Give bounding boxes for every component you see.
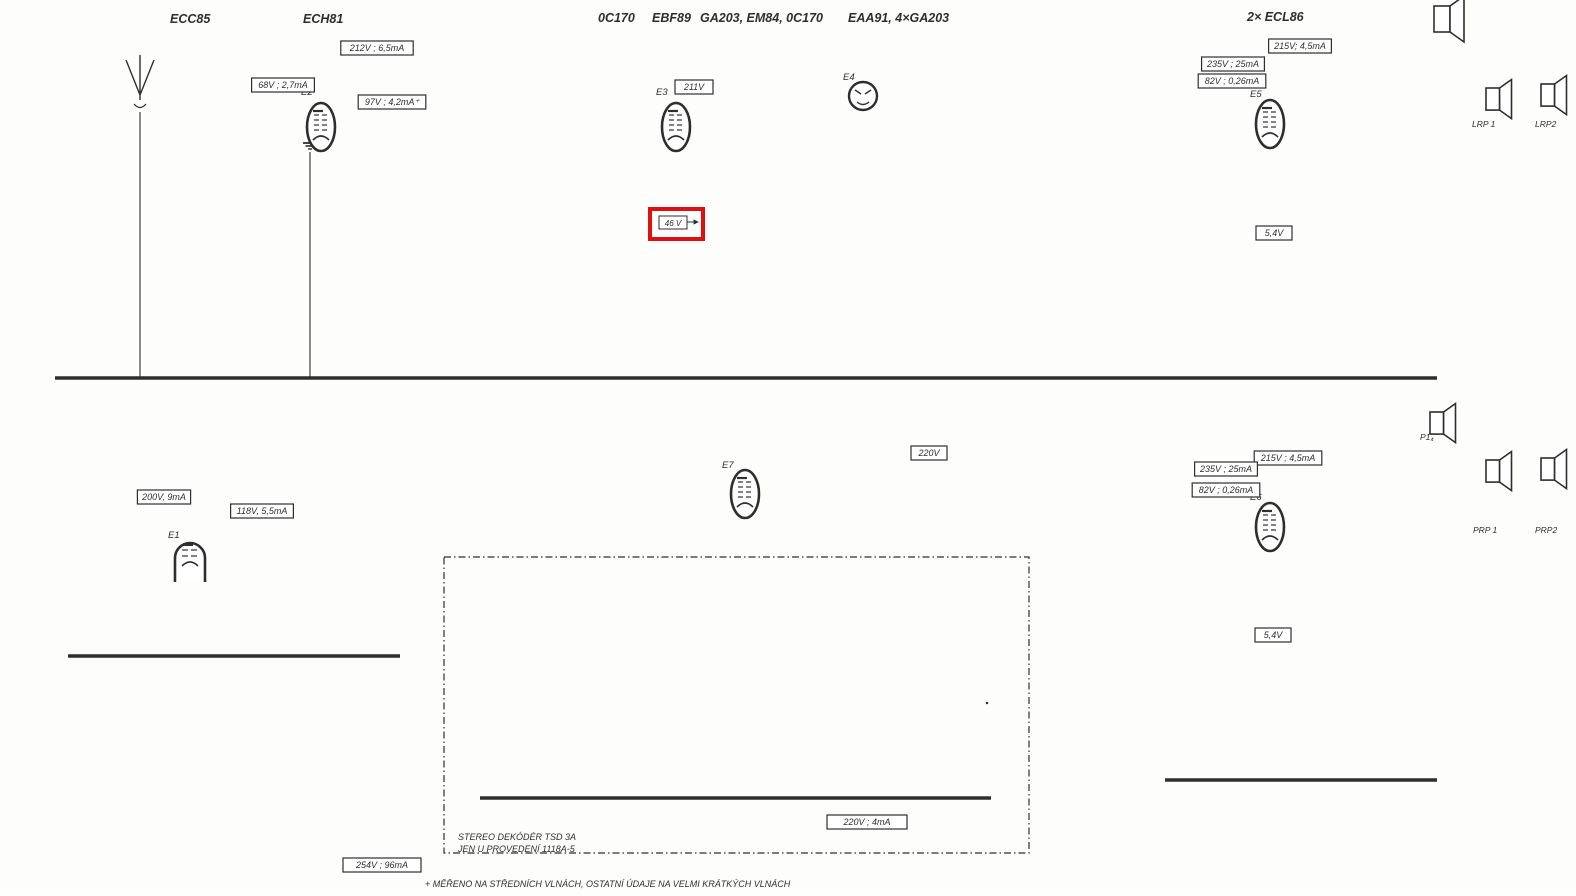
red highlight box 46V <box>650 209 703 239</box>
label stereo dekoder <box>457 832 576 854</box>
svg-text:LRP2: LRP2 <box>1535 119 1557 129</box>
svg-text:118V, 5,5mA: 118V, 5,5mA <box>237 506 288 516</box>
svg-text:E3: E3 <box>656 87 668 98</box>
svg-text:E7: E7 <box>722 460 734 471</box>
vbox 212V;6,5mA <box>341 41 413 55</box>
svg-text:+ MĚŘENO NA STŘEDNÍCH VLNÁCH,: + MĚŘENO NA STŘEDNÍCH VLNÁCH, OSTATNÍ ÚD… <box>425 879 791 889</box>
tube E2 (ECH81) <box>301 87 335 151</box>
svg-text:0C170: 0C170 <box>598 11 635 25</box>
note bottom <box>425 879 791 889</box>
tube E4 (EAA91) <box>843 72 877 110</box>
vbox 5,4V r2 <box>1255 628 1291 642</box>
vbox 235V;25mA r2 <box>1195 462 1258 476</box>
speaker PRP2 <box>1535 450 1567 536</box>
svg-text:E5: E5 <box>1250 89 1262 100</box>
tube E5 (ECL86) <box>1250 89 1284 148</box>
antenna <box>126 55 154 378</box>
svg-text:PRP2: PRP2 <box>1535 525 1557 535</box>
svg-text:ECC85: ECC85 <box>170 12 211 26</box>
label ECH81 <box>303 12 343 26</box>
vbox 97V;4,2mA <box>358 95 426 109</box>
svg-text:5,4V: 5,4V <box>1264 630 1284 640</box>
vbox 220V mid <box>911 446 947 460</box>
speaker LRP1 <box>1472 80 1512 130</box>
svg-text:2× ECL86: 2× ECL86 <box>1246 10 1305 24</box>
label 0C170 <box>598 11 635 25</box>
vbox 215V;4,5mA r1 <box>1269 39 1332 53</box>
svg-text:235V ; 25mA: 235V ; 25mA <box>1206 59 1259 69</box>
svg-text:5,4V: 5,4V <box>1265 228 1285 238</box>
svg-text:82V ; 0,26mA: 82V ; 0,26mA <box>1199 485 1254 495</box>
vbox 220V;4mA <box>827 815 907 829</box>
main HT bus <box>55 376 1437 380</box>
stereo decoder enclosure <box>444 557 1029 853</box>
svg-text:STEREO DEKÓDÉR TSD 3A: STEREO DEKÓDÉR TSD 3A <box>458 832 576 842</box>
svg-text:E1: E1 <box>168 530 180 541</box>
svg-text:215V; 4,5mA: 215V; 4,5mA <box>1273 41 1326 51</box>
svg-text:220V ; 4mA: 220V ; 4mA <box>842 817 890 827</box>
svg-text:82V ; 0,26mA: 82V ; 0,26mA <box>1205 76 1260 86</box>
vbox 200V,9mA <box>137 490 190 504</box>
label EAA91,4xGA203 <box>848 11 949 25</box>
svg-text:GA203, EM84, 0C170: GA203, EM84, 0C170 <box>700 11 823 25</box>
vbox 5,4V r1 <box>1256 226 1292 240</box>
svg-text:215V ; 4,5mA: 215V ; 4,5mA <box>1260 453 1316 463</box>
svg-text:68V ; 2,7mA: 68V ; 2,7mA <box>258 80 308 90</box>
svg-text:220V: 220V <box>917 448 940 458</box>
tube E6 (ECL86) <box>1250 492 1284 551</box>
vbox 118V,5,5mA <box>231 504 294 518</box>
label ECC85 <box>170 12 211 26</box>
svg-text:EBF89: EBF89 <box>652 11 691 25</box>
svg-text:EAA91, 4×GA203: EAA91, 4×GA203 <box>848 11 949 25</box>
svg-text:235V ; 25mA: 235V ; 25mA <box>1199 464 1252 474</box>
svg-text:46 V: 46 V <box>665 219 682 228</box>
tube E3 (EBF89) <box>656 87 690 151</box>
vbox 82V;0,26mA r2 <box>1192 483 1260 497</box>
svg-text:PRP 1: PRP 1 <box>1473 525 1498 535</box>
svg-text:P1₄: P1₄ <box>1420 432 1434 442</box>
svg-text:200V, 9mA: 200V, 9mA <box>141 492 186 502</box>
svg-text:97V ; 4,2mA⁺: 97V ; 4,2mA⁺ <box>365 97 421 107</box>
speaker P14 <box>1420 404 1456 443</box>
decoder ground bus <box>480 796 991 799</box>
vbox 211V <box>675 80 713 94</box>
left AF ground bus <box>68 654 400 657</box>
right channel ground bus <box>1165 778 1437 781</box>
tube E7 (EM84) <box>722 460 759 518</box>
label EBF89 <box>652 11 691 25</box>
speaker LRP2 <box>1535 76 1567 130</box>
vbox 215V;4,5mA r2 <box>1254 451 1322 465</box>
svg-text:212V ; 6,5mA: 212V ; 6,5mA <box>349 43 405 53</box>
svg-text:ECH81: ECH81 <box>303 12 343 26</box>
svg-text:211V: 211V <box>683 82 705 92</box>
svg-text:LRP 1: LRP 1 <box>1472 119 1496 129</box>
speaker top <box>1434 0 1464 42</box>
label 2xECL86 <box>1246 10 1305 24</box>
vbox 82V;0,26mA r1 <box>1198 74 1266 88</box>
ground symbol <box>303 118 317 378</box>
tube E1 (ECC85) <box>168 530 205 582</box>
speaker PRP1 <box>1473 452 1512 536</box>
label GA203,EM84,0C170 <box>700 11 823 25</box>
svg-text:JEN U PROVEDENÍ 1118A-5: JEN U PROVEDENÍ 1118A-5 <box>457 844 576 854</box>
vbox -6,3V <box>987 703 988 704</box>
svg-text:254V ; 96mA: 254V ; 96mA <box>355 860 408 870</box>
vbox 254V;96mA <box>343 858 421 872</box>
vbox 68V;2,7mA <box>252 78 315 92</box>
vbox 235V;25mA r1 <box>1202 57 1265 71</box>
svg-text:E4: E4 <box>843 72 855 83</box>
